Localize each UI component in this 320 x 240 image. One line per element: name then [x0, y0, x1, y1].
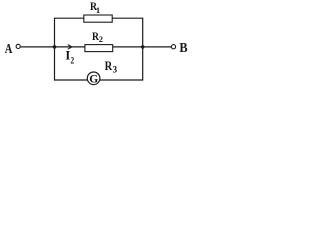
galvanometer G (circle): [87, 72, 100, 85]
terminal A (open circle): [16, 44, 20, 48]
junction dot left: [53, 45, 57, 49]
current arrow I2: [68, 45, 72, 50]
wire top branch right: [112, 17, 143, 19]
terminal B (open circle): [171, 45, 175, 49]
svg-text:B: B: [179, 41, 187, 56]
resistor R2 (box): [85, 45, 113, 52]
svg-text:1: 1: [96, 5, 100, 15]
wire left vertical riser: [54, 18, 56, 81]
wire bottom branch left: [55, 79, 88, 81]
wire left junction to R2: [55, 46, 85, 48]
svg-text:2: 2: [70, 56, 74, 66]
wire right junction to B: [143, 46, 172, 48]
wire A to left junction: [21, 46, 55, 48]
wire bottom branch right: [100, 79, 143, 81]
svg-text:2: 2: [99, 34, 103, 44]
wire top branch left: [55, 17, 84, 19]
svg-text:3: 3: [113, 65, 118, 75]
junction dot right: [141, 45, 145, 49]
svg-text:G: G: [89, 73, 98, 85]
wire R2 to right junction: [113, 46, 143, 48]
svg-text:A: A: [5, 42, 13, 57]
resistor R1 (box): [84, 15, 112, 22]
wire right vertical riser: [142, 18, 144, 81]
